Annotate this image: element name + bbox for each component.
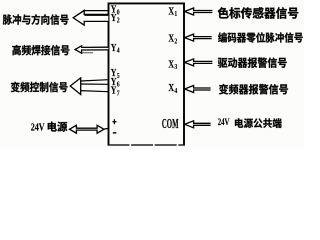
arrow in COM 24V common xyxy=(185,121,211,128)
svg-text:X: X xyxy=(168,58,174,71)
label 24v-common cjk part xyxy=(235,118,282,128)
svg-text:Y: Y xyxy=(111,84,117,97)
svg-text:24V: 24V xyxy=(218,117,230,128)
label vfd-control-signal xyxy=(11,82,68,93)
svg-text:X: X xyxy=(168,5,174,18)
pin label - (24V minus terminal) xyxy=(113,132,117,134)
arrow in X3 driver alarm xyxy=(185,59,213,66)
pin label X2 xyxy=(168,33,177,46)
arrow in X2 encoder zero pulse xyxy=(185,34,212,41)
arrow in X1 color-mark sensor xyxy=(185,8,213,15)
PLC I/O box xyxy=(109,3,185,145)
wire Y7 xyxy=(81,91,109,92)
arrow 24V power (double headed) xyxy=(70,125,104,133)
wire Y6 xyxy=(81,83,109,85)
label hf-welding-signal xyxy=(12,45,69,55)
arrow in X4 inverter alarm xyxy=(185,86,211,93)
pin label Y7 xyxy=(111,84,120,97)
svg-text:24V: 24V xyxy=(31,122,45,133)
wire Y5 xyxy=(81,80,109,81)
pin label Y2 xyxy=(111,12,120,25)
arrow out hf-welding (to Y4) xyxy=(75,46,108,53)
pin label Y5 xyxy=(111,67,120,80)
wire Y2 xyxy=(85,14,109,16)
label encoder-zero-pulse-signal xyxy=(218,32,303,42)
pin label X4 xyxy=(168,82,177,95)
svg-text:1: 1 xyxy=(174,11,177,19)
label inverter-alarm-signal xyxy=(219,84,288,95)
label pulse-direction-signal xyxy=(3,14,69,25)
svg-text:Y: Y xyxy=(111,12,117,25)
wire Y0 xyxy=(85,10,109,12)
label color-mark-sensor-signal xyxy=(218,7,299,19)
pin label X1 xyxy=(168,5,177,18)
pin label Y4 xyxy=(111,42,120,55)
arrow out pulse/direction (to Y0,Y2) xyxy=(73,10,108,25)
label driver-alarm-signal xyxy=(218,57,287,67)
svg-text:X: X xyxy=(168,82,174,95)
pin label Y0 xyxy=(111,4,120,17)
wire Y4 lower smear xyxy=(82,52,93,54)
svg-text:X: X xyxy=(168,33,174,46)
svg-text:COM: COM xyxy=(162,116,179,131)
svg-text:Y: Y xyxy=(111,42,117,55)
pin label X3 xyxy=(168,58,177,71)
wire 24V to box xyxy=(104,127,109,130)
pin label Y6 xyxy=(111,76,120,89)
label 24v-power cjk part xyxy=(48,122,67,132)
arrow out vfd-control (to Y5,Y6,Y7) xyxy=(70,78,81,95)
pin label + (24V plus terminal) xyxy=(113,119,117,124)
PLC box bottom edge (faint) xyxy=(108,144,186,146)
